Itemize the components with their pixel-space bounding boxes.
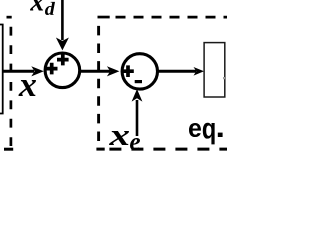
label x [19,80,37,96]
wire: x_e up into summing junction U2 [136,100,139,136]
wire: U2 output to block [158,70,197,73]
left dashed box: top corner dash [7,16,12,19]
summing junction U2 [122,54,157,89]
right dashed box: left edge [97,26,100,145]
label x_e [109,131,129,145]
plus sign (left) in U1 [46,63,58,75]
left dashed box: right edge [10,27,13,147]
right dashed box: top edge [116,16,228,19]
plus sign (top) in U1 [57,54,69,66]
wire: x_d down into summing junction U1 [61,0,64,40]
right dashed box: top corner dash [98,16,110,19]
minus sign in U2 [135,80,142,83]
arrowhead into U2 from left [107,66,120,76]
right dashed box: bottom corner dash [96,148,104,151]
plus sign in U2 [122,65,134,77]
arrowhead into U2 from bottom [132,89,143,102]
right dashed box: bottom edge [109,148,227,151]
label eq. [189,123,201,137]
label x_d [30,0,43,10]
block (eq. block, cut off at right) [204,43,225,97]
arrowhead into U1 from left [31,66,44,76]
wire: x input into summing junction U1 [3,70,34,73]
arrowhead into U1 from top [56,38,69,51]
wire: U1 output to summing junction U2 [80,70,110,73]
solid block (cut off at left edge) [0,25,3,114]
left dashed box: bottom corner dash [4,148,13,151]
summing junction U1 [45,53,80,88]
arrowhead into block [194,67,205,76]
text fragment inside block [223,77,225,79]
